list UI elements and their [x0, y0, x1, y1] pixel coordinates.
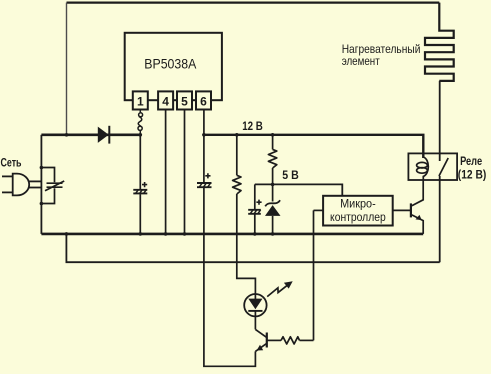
zener diode column top [272, 184, 274, 201]
varistor diagonal [45, 181, 64, 191]
relay coil right bulge [423, 157, 428, 180]
wire resistor R1 column top [236, 135, 238, 176]
wire pin 6 column upper [203, 110, 205, 183]
wire left vertical from top bus to diode wire [66, 3, 68, 135]
LED circle [244, 294, 266, 316]
capacitor C2 plus [205, 173, 210, 178]
transistor Q2 base bar [266, 333, 268, 348]
capacitor C1 hatching [136, 190, 147, 194]
wire plug cord lower [29, 187, 42, 189]
zener cathode bar [265, 200, 280, 206]
wire LED column to Q2 [254, 316, 256, 329]
wire microcontroller left vertical down [313, 210, 315, 340]
svg-text:5: 5 [181, 94, 188, 108]
capacitor C2 hatching [199, 183, 210, 187]
pin 4 box [158, 91, 173, 109]
wire mains horizontal with diode [41, 134, 140, 137]
inductor squiggle under pin 1 [139, 110, 141, 113]
wire pin 4 column [165, 110, 167, 234]
capacitor C3 column top [254, 184, 256, 209]
pin 1 box [133, 91, 148, 109]
wire pin 1 column upper [139, 135, 141, 189]
svg-text:(12 В): (12 В) [458, 168, 487, 182]
capacitor C3 column bottom [254, 214, 256, 234]
pin 5 box [177, 91, 192, 109]
transistor Q2 emitter arrow [257, 345, 264, 351]
svg-text:12 В: 12 В [242, 119, 263, 133]
capacitor C3 plus [256, 200, 261, 205]
svg-text:контроллер: контроллер [330, 210, 386, 224]
pin 6 box [196, 91, 211, 109]
junction dots [40, 133, 275, 236]
svg-text:элемент: элемент [342, 54, 380, 68]
varistor plates [47, 183, 63, 187]
plug prong lower [2, 191, 13, 193]
LED triangle [248, 299, 262, 310]
wire microcontroller left stub [314, 209, 324, 211]
diode cathode bar [108, 126, 110, 144]
pin labels [137, 94, 207, 108]
zener triangle [265, 205, 281, 216]
transistor Q1 base bar [410, 203, 412, 217]
capacitor C3 hatching [250, 210, 260, 214]
resistor R3 zigzag [281, 337, 300, 344]
capacitor C2 plates [197, 183, 212, 187]
wire left mains vertical [40, 135, 42, 234]
wire Q2 base to R3 [267, 339, 281, 341]
wire pin 5 column [184, 110, 186, 234]
transistor Q1 collector [412, 180, 423, 206]
wire relay switch bottom to bus 2 [439, 176, 441, 262]
svg-text:Сеть: Сеть [1, 155, 22, 169]
relay coil loops [417, 162, 428, 168]
wire R3 to microcontroller column [300, 339, 314, 341]
svg-text:4: 4 [162, 94, 169, 108]
wire pin 1 column lower [139, 194, 141, 234]
wire 5V rail [255, 184, 342, 195]
heater meander [425, 3, 454, 81]
resistor R2 zigzag [268, 149, 276, 168]
wire relay coil top stub [422, 153, 424, 158]
wire varistor branch top [41, 168, 54, 183]
transistor Q2 emitter [255, 344, 266, 352]
wire R1 column down to LED [237, 194, 256, 294]
transistor Q1 emitter [412, 215, 423, 234]
transistor Q1 emitter arrow [416, 215, 422, 220]
svg-text:5 В: 5 В [282, 168, 299, 182]
BP5038A module box [125, 33, 222, 100]
wire R2 column to 5V rail [272, 168, 274, 184]
transistor Q2 collector [255, 329, 266, 337]
wire heater column to relay switch [439, 81, 441, 161]
capacitor C1 plus [142, 182, 147, 187]
svg-text:Реле: Реле [460, 156, 482, 168]
svg-text:BP5038A: BP5038A [144, 56, 196, 71]
diode [98, 127, 109, 143]
wire plug cord upper [29, 180, 42, 182]
LED cathode bar [248, 310, 262, 312]
mains plug body [13, 174, 29, 196]
svg-text:Микро-: Микро- [340, 197, 376, 211]
wire bottom bus 2 with left link [66, 234, 439, 262]
wire microcontroller right stub to Q1 base [393, 209, 411, 211]
wire top bus [67, 1, 440, 3]
LED emission arrow [267, 284, 289, 297]
zener column bottom [272, 216, 274, 234]
capacitor C3 plates [248, 210, 261, 214]
resistor R1 zigzag [233, 175, 241, 194]
relay box [408, 153, 457, 180]
wire pin 6 column lower going to bottom loop [204, 188, 256, 366]
capacitor C1 plates [133, 190, 147, 194]
plug prong upper [2, 175, 13, 177]
wire resistor R2 column top [272, 135, 274, 150]
wire bottom bus 1 [41, 233, 423, 236]
wire 12V rail to relay coil [204, 135, 423, 158]
wire varistor branch bottom [41, 188, 54, 203]
LED wire inside bottom [254, 311, 256, 317]
relay switch blade [439, 158, 448, 176]
svg-text:6: 6 [200, 94, 207, 108]
microcontroller box [323, 196, 393, 226]
LED wire inside top [254, 294, 256, 299]
svg-text:1: 1 [137, 94, 144, 108]
